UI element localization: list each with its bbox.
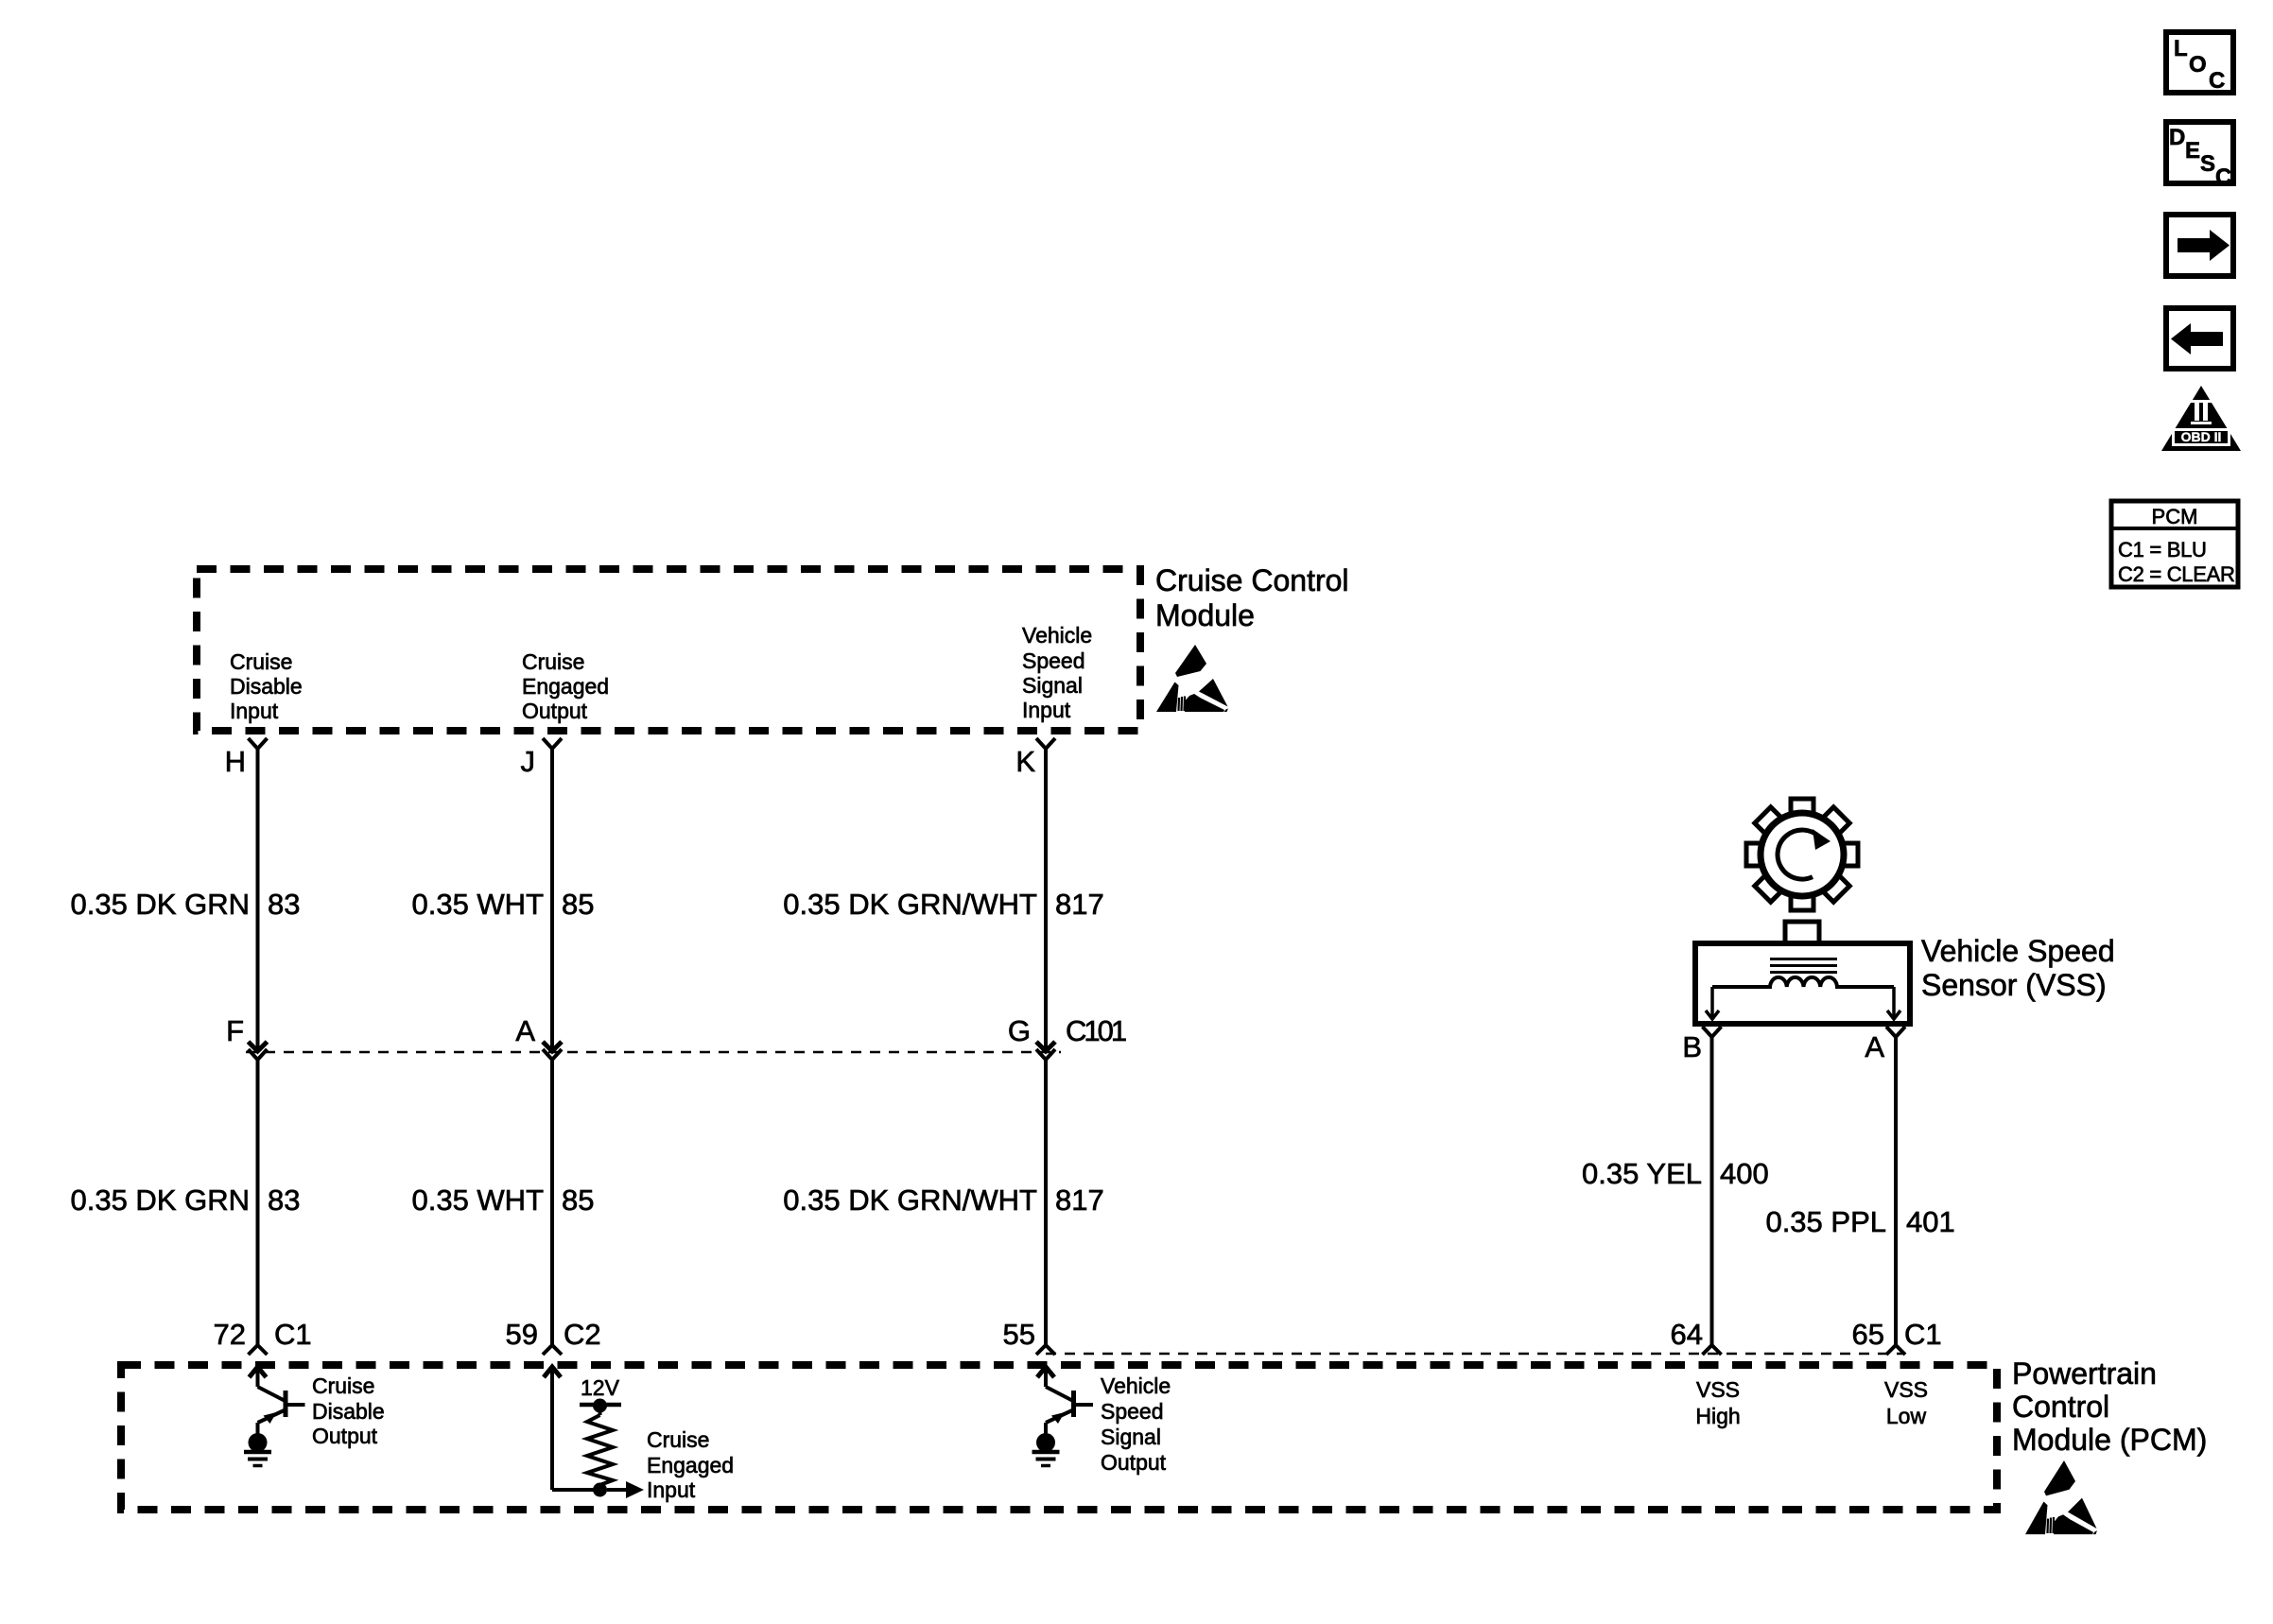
svg-text:Vehicle Speed: Vehicle Speed xyxy=(1921,934,2115,968)
svg-text:Cruise: Cruise xyxy=(522,649,584,674)
svg-text:Module: Module xyxy=(1155,598,1255,632)
title Vehicle Speed Sensor (VSS) xyxy=(1921,934,2115,1002)
svg-text:Cruise: Cruise xyxy=(647,1427,709,1452)
svg-text:401: 401 xyxy=(1906,1205,1955,1238)
svg-text:85: 85 xyxy=(562,1183,594,1217)
PCM pin 64 xyxy=(1671,1318,1722,1355)
svg-text:Low: Low xyxy=(1886,1404,1927,1428)
wire G to 55 (0.35 DK GRN/WHT 817) xyxy=(1044,1060,1048,1345)
connector C101 pin A xyxy=(515,1014,562,1060)
svg-text:83: 83 xyxy=(268,888,300,921)
svg-text:L: L xyxy=(2174,36,2188,61)
VSS pin A xyxy=(1865,1027,1905,1063)
VSS pin B xyxy=(1682,1027,1721,1063)
connector C101 pin F xyxy=(226,1014,267,1060)
PCM pin 72 C1 xyxy=(214,1318,312,1355)
svg-text:72: 72 xyxy=(214,1318,246,1351)
svg-text:Cruise: Cruise xyxy=(230,649,292,674)
pin J xyxy=(521,738,563,778)
connector C1 dashed line xyxy=(1046,1353,1902,1356)
svg-text:Output: Output xyxy=(1101,1450,1167,1475)
svg-text:High: High xyxy=(1695,1404,1740,1428)
svg-text:Input: Input xyxy=(647,1477,696,1502)
svg-text:C2: C2 xyxy=(564,1318,601,1351)
svg-text:Vehicle: Vehicle xyxy=(1101,1373,1171,1398)
icon arrow left button xyxy=(2166,308,2233,369)
PCM pin 59 C2 xyxy=(506,1318,601,1355)
vehicle speed sensor (VSS) box xyxy=(1695,922,1910,1024)
svg-text:Speed: Speed xyxy=(1022,648,1085,673)
svg-text:Signal: Signal xyxy=(1101,1425,1161,1449)
wire A to 59 (0.35 WHT 85) xyxy=(550,1060,554,1345)
svg-text:A: A xyxy=(1865,1030,1884,1063)
svg-text:C1: C1 xyxy=(274,1318,312,1351)
vehicle speed sensor gear xyxy=(1724,776,1882,934)
svg-text:F: F xyxy=(226,1014,244,1047)
label Cruise Disable Output xyxy=(312,1373,385,1448)
svg-text:A: A xyxy=(515,1014,535,1047)
label VSS High (pin 64) xyxy=(1695,1377,1740,1428)
PCM pin 59 internal: 12V pull-up xyxy=(544,1367,600,1490)
PCM pin 55 xyxy=(1003,1318,1055,1355)
svg-text:817: 817 xyxy=(1055,1183,1104,1217)
svg-text:Input: Input xyxy=(230,699,279,723)
svg-text:Input: Input xyxy=(1022,698,1071,722)
icon OBD II triangle xyxy=(2161,386,2241,451)
title Powertrain Control Module (PCM) xyxy=(2012,1356,2207,1457)
svg-text:0.35 DK GRN/WHT: 0.35 DK GRN/WHT xyxy=(783,888,1037,921)
label Cruise Disable Input (module pin H function) xyxy=(230,649,303,723)
svg-text:0.35 WHT: 0.35 WHT xyxy=(411,888,544,921)
svg-text:S: S xyxy=(2200,151,2215,177)
PCM pin 65 C1 xyxy=(1852,1318,1942,1355)
svg-text:0.35 WHT: 0.35 WHT xyxy=(411,1183,544,1217)
icon LOC button xyxy=(2166,32,2233,94)
svg-text:Module (PCM): Module (PCM) xyxy=(2012,1423,2207,1457)
svg-text:VSS: VSS xyxy=(1884,1377,1928,1402)
svg-text:Powertrain: Powertrain xyxy=(2012,1356,2157,1391)
wire J to A (0.35 WHT 85) xyxy=(550,749,554,1051)
svg-text:55: 55 xyxy=(1003,1318,1035,1351)
junction node at resistor bottom xyxy=(593,1483,607,1497)
ESD symbol (PCM) xyxy=(2025,1460,2097,1534)
label VSS Low (pin 65) xyxy=(1884,1377,1928,1428)
svg-text:Output: Output xyxy=(312,1424,378,1448)
icon DESC button xyxy=(2166,122,2233,190)
transistor cruise disable output xyxy=(250,1367,305,1434)
svg-text:B: B xyxy=(1682,1030,1702,1063)
svg-text:Engaged: Engaged xyxy=(647,1453,734,1477)
wire label 0.35 DK GRN/WHT 817 (upper) xyxy=(783,888,1103,921)
svg-text:G: G xyxy=(1008,1014,1031,1047)
wire label 0.35 PPL 401 xyxy=(1765,1205,1954,1238)
ground (cruise disable) xyxy=(244,1433,271,1466)
svg-text:H: H xyxy=(225,745,246,778)
label Vehicle Speed Signal Input (module pin K function) xyxy=(1022,623,1092,722)
svg-text:0.35 DK GRN: 0.35 DK GRN xyxy=(70,1183,250,1217)
PCM box Powertrain Control Module (dashed) xyxy=(121,1365,1997,1510)
svg-text:65: 65 xyxy=(1852,1318,1884,1351)
wire label 0.35 WHT 85 (upper) xyxy=(411,888,594,921)
connector C101 pin G xyxy=(1008,1014,1126,1060)
wire F to 72 (0.35 DK GRN 83) xyxy=(256,1060,260,1345)
svg-text:0.35 YEL: 0.35 YEL xyxy=(1582,1157,1702,1190)
svg-text:59: 59 xyxy=(506,1318,538,1351)
svg-text:C1: C1 xyxy=(1904,1318,1942,1351)
power feed bar 12V xyxy=(580,1399,621,1416)
svg-text:0.35 DK GRN: 0.35 DK GRN xyxy=(70,888,250,921)
title Cruise Control Module xyxy=(1155,563,1349,632)
label Vehicle Speed Signal Output xyxy=(1101,1373,1171,1475)
svg-text:C1 = BLU: C1 = BLU xyxy=(2118,538,2207,561)
svg-text:K: K xyxy=(1015,745,1035,778)
svg-text:0.35 DK GRN/WHT: 0.35 DK GRN/WHT xyxy=(783,1183,1037,1217)
label Cruise Engaged Output (module pin J function) xyxy=(522,649,609,723)
ground (vehicle speed signal) xyxy=(1032,1433,1060,1466)
pin H xyxy=(225,738,268,778)
svg-text:OBD II: OBD II xyxy=(2181,429,2222,444)
wire label 0.35 WHT 85 (lower) xyxy=(411,1183,594,1217)
svg-text:Signal: Signal xyxy=(1022,673,1083,698)
connector C101 dashed line xyxy=(246,1051,1061,1054)
svg-text:Sensor (VSS): Sensor (VSS) xyxy=(1921,968,2107,1002)
transistor vehicle speed signal output xyxy=(1037,1367,1093,1434)
svg-text:Speed: Speed xyxy=(1101,1399,1164,1424)
wire label 0.35 DK GRN 83 (lower) xyxy=(70,1183,300,1217)
svg-text:C101: C101 xyxy=(1066,1014,1126,1047)
wire label 0.35 DK GRN 83 (upper) xyxy=(70,888,300,921)
wire A to 65 (0.35 PPL 401) xyxy=(1894,1037,1898,1345)
svg-text:0.35 PPL: 0.35 PPL xyxy=(1765,1205,1886,1238)
svg-text:12V: 12V xyxy=(581,1375,620,1400)
module box Cruise Control Module (dashed) xyxy=(197,569,1140,731)
svg-text:C: C xyxy=(2215,164,2231,190)
svg-text:PCM: PCM xyxy=(2152,505,2198,528)
wire H to F (0.35 DK GRN 83) xyxy=(256,749,260,1051)
svg-text:Control: Control xyxy=(2012,1390,2109,1424)
resistor (cruise engaged pull-up) xyxy=(587,1415,613,1490)
svg-text:817: 817 xyxy=(1055,888,1104,921)
inductor coil inside VSS xyxy=(1712,977,1894,987)
svg-text:83: 83 xyxy=(268,1183,300,1217)
legend PCM connector colors xyxy=(2111,501,2238,587)
svg-text:C: C xyxy=(2209,68,2225,94)
svg-text:C2 = CLEAR: C2 = CLEAR xyxy=(2118,562,2235,586)
label Cruise Engaged Input xyxy=(647,1427,734,1502)
svg-text:J: J xyxy=(521,745,536,778)
arrow cruise engaged input xyxy=(607,1481,644,1498)
svg-text:Engaged: Engaged xyxy=(522,674,609,699)
svg-text:VSS: VSS xyxy=(1696,1377,1740,1402)
svg-text:O: O xyxy=(2189,52,2207,78)
svg-text:E: E xyxy=(2185,138,2200,164)
wire label 0.35 DK GRN/WHT 817 (lower) xyxy=(783,1183,1103,1217)
icon arrow right button xyxy=(2166,215,2233,276)
pin K xyxy=(1015,738,1055,778)
wire label 0.35 YEL 400 xyxy=(1582,1157,1769,1190)
svg-text:Output: Output xyxy=(522,699,588,723)
svg-text:Vehicle: Vehicle xyxy=(1022,623,1092,648)
svg-text:D: D xyxy=(2169,125,2185,150)
ESD symbol (cruise control module) xyxy=(1156,645,1228,712)
svg-text:85: 85 xyxy=(562,888,594,921)
svg-text:Disable: Disable xyxy=(230,674,303,699)
wire K to G (0.35 DK GRN/WHT 817) xyxy=(1044,749,1048,1051)
wire B to 64 (0.35 YEL 400) xyxy=(1710,1037,1714,1345)
svg-text:Cruise Control: Cruise Control xyxy=(1155,563,1349,597)
svg-text:64: 64 xyxy=(1671,1318,1703,1351)
svg-text:Cruise: Cruise xyxy=(312,1373,374,1398)
svg-text:Disable: Disable xyxy=(312,1399,385,1424)
svg-text:400: 400 xyxy=(1720,1157,1769,1190)
